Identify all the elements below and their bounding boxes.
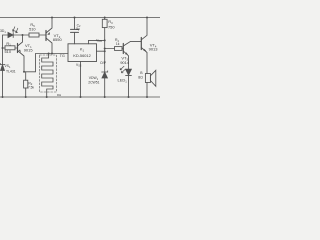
svg-text:O/P: O/P [100, 61, 107, 65]
svg-text:510: 510 [5, 49, 12, 54]
junction C2 / top rail [74, 17, 76, 19]
junction left bus / ground rail [2, 96, 4, 98]
sensor probe electrode (meander) [40, 54, 57, 98]
svg-text:VS1: VS1 [5, 64, 12, 69]
wire O/P pin [97, 50, 105, 52]
transistor VT1 [18, 35, 25, 72]
junction VT1 collector / node A [22, 34, 24, 36]
svg-text:510: 510 [29, 26, 36, 31]
junction R4 / R3 net [104, 48, 106, 50]
wire left vertical bus [3, 35, 9, 97]
svg-text:VSS: VSS [76, 63, 82, 68]
svg-text:750: 750 [108, 25, 115, 30]
junction R1 / left bus [2, 47, 4, 49]
transistor VT4 [141, 18, 147, 74]
svg-text:1k: 1k [116, 42, 120, 46]
junction Vss / ground rail [80, 96, 82, 98]
junction O/P wire / R3 net [104, 50, 106, 52]
junction probe / TG wire [48, 53, 50, 55]
LED1 [120, 66, 131, 97]
junction R2 / ground rail [25, 96, 27, 98]
resistor R2 [24, 72, 28, 97]
wire node A: photodiode cathode to R5 to VT2 base [13, 34, 29, 36]
zener VS1 TL431 [0, 63, 5, 70]
junction R3 / top rail [104, 17, 106, 19]
svg-text:3D1: 3D1 [0, 29, 6, 34]
IC K1 KD-56012 box [68, 44, 97, 62]
svg-text:5μ: 5μ [76, 27, 80, 31]
junction VT2 collector / top rail [51, 17, 53, 19]
junction VDW1 / ground rail [104, 96, 106, 98]
svg-text:DH: DH [57, 93, 61, 97]
resistor R4 [105, 47, 124, 51]
junction probe / ground rail [46, 96, 48, 98]
svg-text:7.5k: 7.5k [28, 85, 34, 89]
junction VT1 emitter / R2 [23, 71, 25, 73]
wire TG net: VT1 emitter junction to KD box TG pin [24, 54, 68, 72]
svg-text:B: B [140, 71, 143, 75]
transistor VT3 [123, 41, 141, 68]
junction LED1 / ground rail [128, 96, 130, 98]
junction VT4 collector / top rail [146, 17, 148, 19]
zener VDW1 2CW51 [102, 71, 108, 97]
capacitor C2 [71, 18, 79, 44]
svg-text:TG: TG [60, 54, 65, 58]
resistor R1 [3, 46, 18, 50]
svg-text:K1: K1 [80, 47, 85, 53]
svg-text:TL431: TL431 [6, 69, 16, 73]
svg-text:2CW51: 2CW51 [88, 81, 99, 85]
svg-text:LED1: LED1 [118, 78, 128, 84]
resistor R3 [102, 18, 107, 73]
wire bottom ground rail [0, 96, 160, 98]
speaker B 8ohm [145, 70, 155, 97]
svg-text:VDD: VDD [96, 38, 102, 43]
transistor VT2 [46, 18, 52, 54]
svg-text:9013: 9013 [149, 46, 159, 51]
junction speaker / ground rail [146, 96, 148, 98]
junction Vdd wire / R3 net [104, 39, 106, 41]
svg-text:9015: 9015 [24, 47, 34, 52]
resistor R5 [29, 33, 39, 37]
svg-text:8Ω: 8Ω [138, 76, 143, 80]
wire Vdd pin to R3 net [89, 40, 105, 43]
svg-text:9014: 9014 [120, 60, 130, 65]
wire Vss pin to ground [80, 62, 82, 98]
svg-text:KD-56012: KD-56012 [73, 53, 91, 58]
junction VT2 collector / TG wire [51, 53, 53, 55]
photodiode 3D1 [8, 27, 18, 38]
wire top supply rail [0, 17, 160, 19]
svg-text:8550: 8550 [53, 37, 63, 42]
